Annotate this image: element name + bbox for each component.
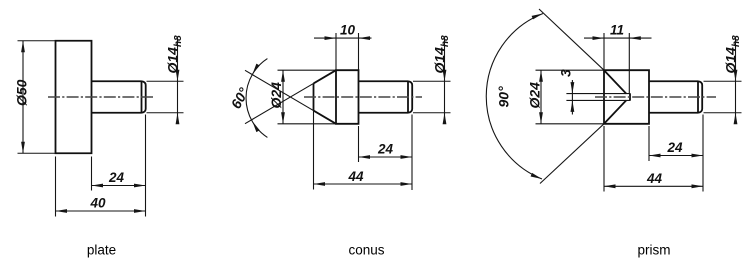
conus cone apex construction lines — [245, 70, 314, 123]
prism relief slot lines — [566, 94, 630, 101]
prism head outline — [604, 70, 649, 124]
svg-text:24: 24 — [377, 142, 394, 157]
conus dimension O24 — [268, 70, 336, 124]
prism dimension O14 h8 — [704, 35, 743, 124]
conus dimension 60 degrees — [228, 59, 268, 138]
plate dimension 24 — [92, 115, 146, 217]
prism dimension 11 — [584, 23, 652, 94]
prism center line — [595, 96, 716, 98]
prism dimension O24 — [527, 70, 605, 124]
prism dimension 24 — [649, 115, 703, 192]
svg-text:24: 24 — [108, 170, 125, 185]
plate dimension 40 — [56, 157, 146, 217]
conus head outline — [336, 70, 359, 124]
conus dimension 24 — [359, 115, 413, 191]
svg-text:40: 40 — [89, 196, 106, 211]
svg-text:plate: plate — [87, 243, 116, 258]
svg-text:Ø24: Ø24 — [527, 82, 543, 109]
plate shaft outline — [92, 81, 146, 113]
svg-text:Ø24: Ø24 — [268, 82, 284, 109]
conus shaft outline — [359, 81, 413, 113]
svg-text:11: 11 — [610, 23, 624, 38]
conus dimension 10 — [314, 23, 372, 71]
svg-text:conus: conus — [348, 243, 384, 258]
prism shaft outline — [649, 81, 702, 113]
plate disc outline — [56, 41, 92, 154]
svg-text:24: 24 — [666, 140, 683, 155]
conus center line — [304, 96, 422, 98]
conus cone outline — [314, 70, 337, 124]
plate center line — [48, 96, 155, 98]
svg-text:44: 44 — [646, 171, 663, 186]
svg-text:prism: prism — [638, 243, 671, 258]
svg-text:3: 3 — [558, 69, 574, 77]
prism angle construction rays — [539, 9, 604, 184]
plate dimension O50 — [14, 41, 56, 154]
svg-text:10: 10 — [340, 23, 356, 38]
plate dimension O14 h8 — [147, 35, 185, 124]
conus dimension O14 h8 — [413, 35, 451, 124]
svg-text:44: 44 — [347, 169, 364, 184]
svg-text:90°: 90° — [496, 86, 512, 108]
prism dimension 44 — [604, 126, 703, 192]
conus dimension 44 — [314, 111, 413, 190]
svg-text:Ø50: Ø50 — [14, 79, 30, 106]
prism dimension 3 — [558, 69, 575, 115]
prism dimension 90 degrees — [486, 14, 543, 180]
prism V-groove outline — [604, 70, 630, 124]
